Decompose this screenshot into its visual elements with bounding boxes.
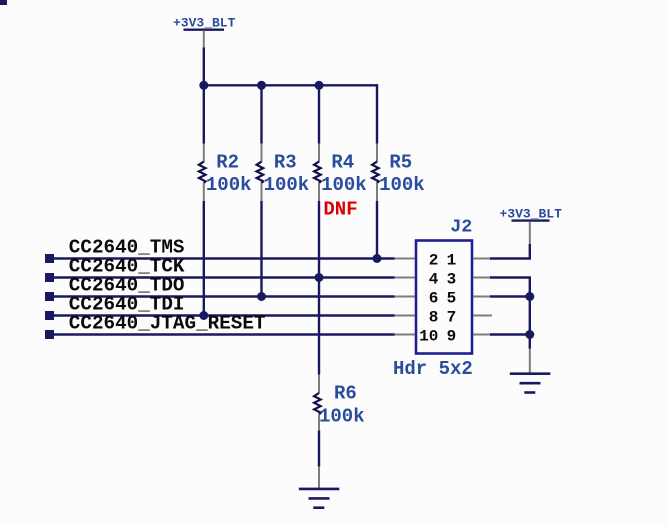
wire CC2640_TMS bbox=[50, 257, 395, 259]
wire pin1 to power bbox=[490, 244, 530, 259]
wire bus corner to R5 bbox=[376, 85, 377, 143]
svg-text:R5: R5 bbox=[389, 151, 412, 173]
wire bus to R2 bbox=[203, 85, 205, 143]
svg-text:+3V3_BLT: +3V3_BLT bbox=[500, 207, 563, 222]
svg-text:8: 8 bbox=[429, 308, 439, 326]
terminal square TMS bbox=[45, 254, 54, 263]
svg-text:100k: 100k bbox=[264, 174, 310, 196]
svg-text:Hdr 5x2: Hdr 5x2 bbox=[393, 358, 473, 380]
svg-text:+3V3_BLT: +3V3_BLT bbox=[173, 16, 236, 31]
svg-text:1: 1 bbox=[447, 251, 457, 269]
svg-text:100k: 100k bbox=[379, 174, 425, 196]
power +3V3_BLT right bbox=[500, 207, 563, 245]
svg-text:3: 3 bbox=[447, 270, 457, 288]
junction bus R2 bbox=[199, 81, 208, 90]
svg-text:DNF: DNF bbox=[323, 199, 357, 221]
svg-text:6: 6 bbox=[429, 289, 439, 307]
junction pin9 bbox=[525, 330, 534, 339]
wire CC2640_TDI bbox=[50, 314, 395, 316]
wire bus to R3 bbox=[260, 85, 262, 143]
connector J2 pins right bbox=[473, 259, 492, 335]
svg-text:2: 2 bbox=[429, 251, 439, 269]
wire R2 to TDI bbox=[203, 201, 205, 316]
ground center bbox=[299, 467, 340, 508]
svg-text:4: 4 bbox=[429, 270, 439, 288]
ground right bbox=[510, 349, 551, 393]
wire CC2640_TCK bbox=[50, 276, 395, 278]
wire pin3 down bbox=[490, 278, 530, 349]
svg-text:7: 7 bbox=[447, 308, 457, 326]
resistor R2 bbox=[199, 144, 206, 202]
terminal square TDO bbox=[45, 292, 54, 301]
junction bus R3 bbox=[257, 81, 266, 90]
svg-text:R6: R6 bbox=[334, 382, 357, 404]
svg-text:R4: R4 bbox=[331, 151, 354, 173]
svg-text:100k: 100k bbox=[206, 174, 252, 196]
wire bus to R4 bbox=[318, 85, 320, 143]
power +3V3_BLT top bbox=[173, 16, 236, 48]
svg-text:R3: R3 bbox=[274, 151, 297, 173]
svg-text:10: 10 bbox=[419, 327, 438, 345]
wire R3 to TDO bbox=[260, 201, 262, 297]
wire R4 down to R6 bbox=[318, 201, 320, 375]
wire CC2640_TDO bbox=[50, 295, 395, 297]
wire pin9 bbox=[490, 333, 530, 335]
resistor R6 bbox=[314, 375, 321, 431]
svg-text:R2: R2 bbox=[216, 151, 239, 173]
svg-text:5: 5 bbox=[447, 289, 457, 307]
junction R2/TDI bbox=[199, 311, 208, 320]
terminal square TDI bbox=[45, 311, 54, 320]
resistor R3 bbox=[257, 144, 264, 202]
resistor R4 bbox=[314, 144, 321, 202]
junction R3/TDO bbox=[257, 292, 266, 301]
wire CC2640_JTAG_RESET bbox=[50, 333, 395, 335]
svg-text:J2: J2 bbox=[450, 217, 472, 238]
svg-text:CC2640_JTAG_RESET: CC2640_JTAG_RESET bbox=[69, 313, 266, 335]
terminal square JTAG_RESET bbox=[45, 330, 54, 339]
wire R5 to TMS bbox=[376, 201, 378, 259]
wire power stem to bus bbox=[203, 47, 205, 85]
junction pin5 bbox=[525, 292, 534, 301]
junction R4/TCK bbox=[315, 273, 324, 282]
junction bus R4 bbox=[315, 81, 324, 90]
corner mark bbox=[0, 0, 7, 5]
connector J2 pins left bbox=[395, 259, 415, 335]
wire pin5 bbox=[490, 295, 530, 297]
svg-text:9: 9 bbox=[447, 327, 457, 345]
terminal square TCK bbox=[45, 273, 54, 282]
wire bus horizontal bbox=[204, 84, 377, 86]
svg-text:100k: 100k bbox=[321, 174, 367, 196]
junction R5/TMS bbox=[373, 254, 382, 263]
svg-text:100k: 100k bbox=[319, 406, 365, 428]
connector J2 body bbox=[416, 241, 472, 354]
resistor R5 bbox=[372, 144, 379, 202]
wire R6 to ground bbox=[318, 431, 320, 467]
